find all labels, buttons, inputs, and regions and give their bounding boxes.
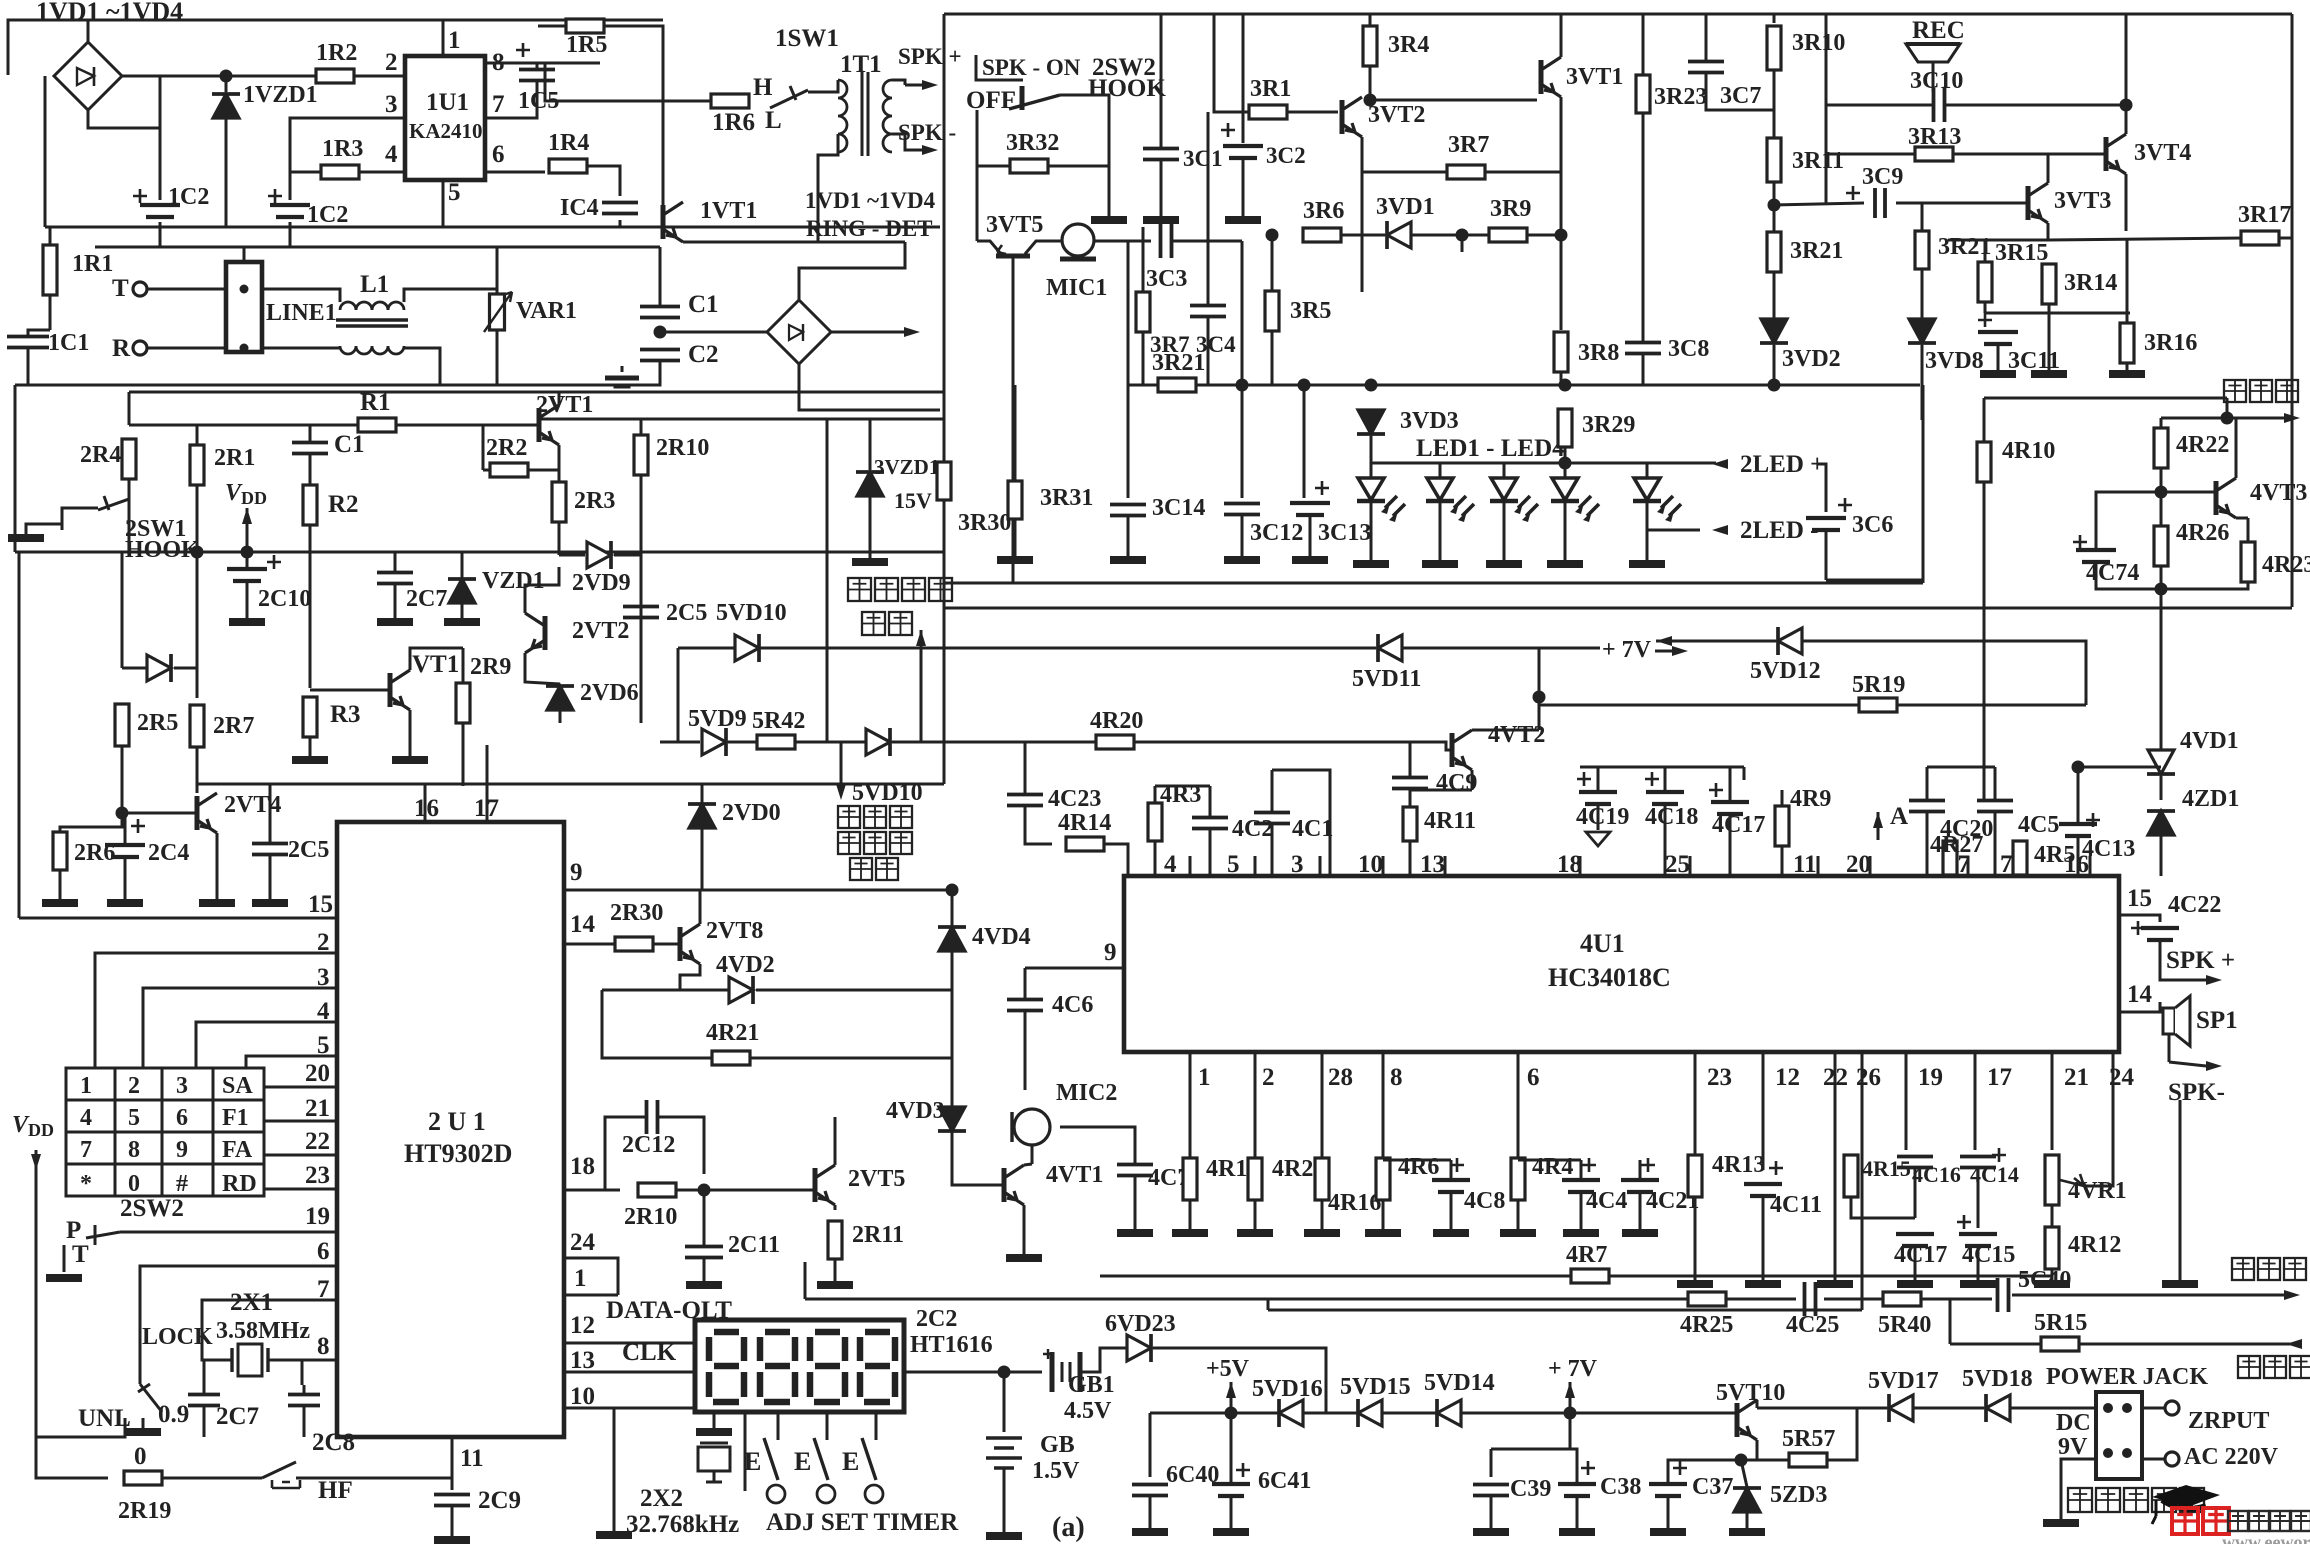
wire 2VD0 top [701, 784, 704, 803]
wire spk+ lead [2160, 958, 2206, 980]
text 控制 [862, 612, 885, 635]
zener 2VD6 [547, 686, 573, 710]
resistor 2R10 (18) [638, 1183, 676, 1197]
plus 4C11 [1769, 1161, 1783, 1175]
resistor 3R14 [2042, 264, 2056, 304]
svg-text:10: 10 [570, 1383, 595, 1410]
svg-text:15: 15 [308, 891, 333, 918]
ground under SP1 col [2162, 1280, 2198, 1288]
diode 5VD15 [1358, 1400, 1382, 1426]
resistor 3R1 [1249, 105, 1287, 119]
wire 3R32 right [1048, 165, 1109, 168]
capacitor 4C7 [1117, 1165, 1153, 1176]
svg-text:6C40: 6C40 [1166, 1462, 1219, 1488]
svg-text:4VD3: 4VD3 [886, 1098, 945, 1124]
svg-text:4C23: 4C23 [1048, 786, 1101, 812]
svg-text:2R11: 2R11 [852, 1222, 904, 1248]
wire jack gnd [2061, 1459, 2096, 1519]
resistor 4R4 [1511, 1158, 1525, 1200]
wire 4VT3 collector [2227, 418, 2236, 478]
svg-text:5VD14: 5VD14 [1424, 1370, 1495, 1396]
wire pin26 bend [1268, 1309, 1862, 1312]
svg-text:24: 24 [570, 1229, 596, 1256]
svg-text:HT1616: HT1616 [910, 1332, 993, 1358]
wire +7V rail a [678, 647, 1376, 650]
svg-text:1: 1 [574, 1265, 587, 1292]
capacitor 2C5 (2) [252, 844, 288, 855]
wire 1R4 right [587, 166, 620, 196]
wire 4VT3 base [2161, 491, 2216, 494]
svg-text:1C1: 1C1 [48, 330, 89, 356]
wire node to 1R2 [226, 75, 317, 78]
svg-text:*: * [80, 1171, 92, 1197]
wire left inner border [18, 552, 21, 918]
resistor 3R17 [2241, 231, 2279, 245]
7-seg digit 2 [760, 1332, 795, 1402]
svg-text:2R2: 2R2 [486, 435, 527, 461]
wire +7V rail b [1402, 647, 1600, 650]
svg-text:1R3: 1R3 [322, 136, 363, 162]
resistor 3R23 [1636, 75, 1650, 113]
wire 4U1 top stub x1580 [1579, 856, 1582, 876]
capacitor 2C5 (1) [623, 607, 659, 618]
wire 2C5b dn [269, 855, 272, 899]
wire audio rail 4 [1921, 1298, 1992, 1301]
arrow to hook switch [904, 327, 920, 337]
transistor VT1 [388, 673, 393, 707]
svg-text:8: 8 [1390, 1064, 1403, 1091]
wire 3VT3 collector [2047, 154, 2050, 183]
wire 2VT1 collector rail [539, 418, 944, 421]
wire 3C13 top [1303, 385, 1306, 498]
svg-text:1T1: 1T1 [840, 51, 882, 78]
wire rail 4R7 [1100, 1275, 1571, 1278]
transistor 3VT3 [2026, 186, 2031, 220]
resistor 2R3 [552, 482, 566, 522]
plus 3C6 [1838, 498, 1852, 512]
bridge rectifier 1VD1~1VD4 [54, 42, 122, 110]
transistor 2VT2 [543, 616, 548, 650]
svg-text:5VD12: 5VD12 [1750, 658, 1821, 684]
LINE1 dot T [240, 285, 249, 294]
svg-text:1.5V: 1.5V [1032, 1458, 1080, 1484]
resistor 2R2 [490, 463, 528, 477]
svg-text:3R21: 3R21 [1152, 350, 1205, 376]
svg-text:3R29: 3R29 [1582, 412, 1635, 438]
wire 4R20 to 4VT2 [1134, 742, 1452, 750]
capacitor 4C25 [1805, 1282, 1816, 1316]
wire 2VT5 emitter [834, 1205, 837, 1210]
wire 2C9 dn [451, 1506, 454, 1536]
wire pin13 row [564, 1371, 695, 1374]
svg-text:2C12: 2C12 [622, 1132, 675, 1158]
wire pin17 col [1974, 1052, 1977, 1150]
wire 2R5 down [121, 746, 124, 813]
wire 2R9 top [462, 648, 465, 683]
wire bridge left drop [8, 20, 88, 75]
capacitor 4C1 [1254, 813, 1290, 824]
wire rail 4R7 right [1609, 1275, 2052, 1278]
svg-text:3VZD1: 3VZD1 [874, 455, 939, 479]
wire 2R19 row [36, 1437, 108, 1478]
wire 2VT5 collector [834, 1117, 837, 1165]
svg-text:HC34018C: HC34018C [1548, 963, 1671, 992]
transistor 3VT2 [1340, 100, 1345, 134]
resistor R3 [303, 697, 317, 737]
svg-text:4R1: 4R1 [1206, 1156, 1247, 1182]
wire 5R57 right [1827, 1408, 1857, 1460]
MIC1 base bar [1060, 257, 1096, 262]
wire 3R10-3R11 [1773, 70, 1776, 140]
wire pin23 col [1694, 1052, 1697, 1156]
wire 3C6 down [1825, 531, 1828, 580]
svg-text:3R7: 3R7 [1448, 132, 1489, 158]
arrow record down [836, 784, 846, 800]
wire 4C74 bottom [2096, 562, 2161, 589]
crystal 2X1 [232, 1348, 268, 1372]
wire 4C13 link [2078, 766, 2161, 769]
wire 4R12 dn [2051, 1269, 2054, 1280]
wire 4C17 stem [1729, 767, 1732, 800]
ground under 2C9 [434, 1536, 470, 1544]
wire cap bracket top [1580, 766, 1744, 769]
svg-text:VAR1: VAR1 [516, 298, 577, 324]
wire 1C2b bot [289, 222, 292, 247]
wire 4R10 to 4C5 [1983, 767, 1986, 800]
capacitor 4C18 [1646, 792, 1684, 804]
wire msg arrow lead [2227, 398, 2284, 418]
wire 4U1 top stub x1968 [1967, 856, 1970, 876]
svg-text:0.9: 0.9 [158, 1401, 189, 1428]
wire 3R14 gnd [2048, 313, 2051, 370]
wire 4R9 dn [1781, 846, 1784, 876]
junction LED rail [1559, 457, 1572, 470]
svg-text:4: 4 [385, 141, 398, 168]
svg-text:4C74: 4C74 [2086, 560, 2139, 586]
wire 5VD10a col [677, 648, 680, 742]
wire 3VT1 emitter col [1560, 97, 1563, 330]
wire left border col [14, 392, 17, 552]
capacitor 4C74 [2076, 550, 2116, 562]
microphone MIC2 [1014, 1109, 1050, 1145]
wire 2-block top [129, 391, 944, 394]
ground under 4C15 [1960, 1280, 1996, 1288]
resistor 3R10 [1767, 26, 1781, 70]
wire IC4 bot [619, 220, 622, 227]
capacitor 2C11 [685, 1247, 723, 1258]
wire 4R13 dn [1694, 1197, 1697, 1280]
wire 5VD18 right [2010, 1407, 2096, 1410]
junction +7V bottom [1564, 1407, 1577, 1420]
wire 5R15 right [2079, 1343, 2292, 1346]
svg-text:3R31: 3R31 [1040, 485, 1093, 511]
capacitor 4C17 (upper) [1711, 802, 1749, 814]
plus 4C18 [1645, 772, 1659, 786]
wire LINE1 to L1 bot [262, 347, 340, 350]
wire 4VD1 dn [2160, 776, 2163, 800]
svg-text:5R57: 5R57 [1782, 1426, 1835, 1452]
plus C37 [1673, 1461, 1687, 1475]
svg-text:4: 4 [80, 1105, 92, 1131]
wire 2R1 top [196, 425, 199, 445]
wire 3VT3 emitter [2047, 223, 2050, 240]
svg-text:2C8: 2C8 [312, 1429, 355, 1456]
transistor 2VT5 [813, 1168, 818, 1202]
wire 6C41 dn [1230, 1496, 1233, 1528]
svg-text:1VD1 ~1VD4: 1VD1 ~1VD4 [36, 0, 183, 26]
wire x944-down [943, 608, 946, 784]
plus 4C17b [1957, 1215, 1971, 1229]
wire LINE1 to L1 top [262, 289, 340, 302]
ground under C38 [1559, 1528, 1595, 1536]
svg-text:12: 12 [570, 1312, 595, 1339]
wire disp pin b [744, 1412, 747, 1491]
wire 2-block left stub [128, 392, 131, 425]
arrow SPK+ right [2206, 975, 2222, 985]
wire pin20 to rowSA [264, 1086, 337, 1089]
svg-text:VZD1: VZD1 [482, 568, 545, 594]
svg-text:6: 6 [317, 1238, 330, 1265]
capacitor 4C19 [1579, 792, 1617, 804]
wire 3VT1 collector [1560, 14, 1563, 57]
transistor 4VT3 [2214, 481, 2219, 515]
connector POWER JACK [2096, 1392, 2142, 1479]
resistor 3R30 [937, 462, 951, 500]
svg-text:3C14: 3C14 [1152, 495, 1205, 521]
plus 3C11 [1978, 313, 1992, 327]
wire R to LINE1 [147, 347, 226, 350]
wire pin24 col [2112, 1052, 2115, 1076]
battery GB1 [1052, 1352, 1080, 1392]
wire left col down [14, 385, 17, 392]
wire 2R10 right [676, 1189, 815, 1192]
svg-text:DC: DC [2056, 1410, 2091, 1436]
svg-text:C1: C1 [334, 431, 365, 458]
wire 4C2 top [1209, 786, 1212, 817]
svg-text:3VD1: 3VD1 [1376, 194, 1435, 220]
svg-text:4C17: 4C17 [1712, 812, 1765, 838]
wire 4C8 dn [1450, 1192, 1453, 1229]
wire 3C6 bot row [1826, 579, 1923, 582]
ground under C39 [1473, 1528, 1509, 1536]
wire pin4 to col3 [196, 1022, 337, 1068]
wire 4U1 top stub x1690 [1689, 856, 1692, 876]
svg-text:OFF: OFF [966, 87, 1016, 114]
wire 5R19 right [1897, 704, 2086, 707]
wire 3VT4 emitter [2125, 174, 2128, 231]
svg-text:3R15: 3R15 [1995, 240, 2048, 266]
ground 2X2 col [596, 1531, 632, 1539]
wire +5V rail [1150, 1412, 1737, 1415]
wire pin26 col [1861, 1052, 1864, 1310]
wire 3VZD1 down [869, 496, 872, 558]
svg-text:3R4: 3R4 [1388, 32, 1429, 58]
wire R2 down [309, 525, 312, 688]
wire 4VT2 emitter join [1410, 789, 1472, 792]
jack pin 3 [2103, 1448, 2113, 1458]
capacitor C39 [1473, 1485, 1509, 1496]
resistor 1R3 [321, 165, 359, 179]
jack pin 2 [2122, 1403, 2132, 1413]
diode 6VD23 [1127, 1335, 1151, 1361]
wire 5R15 row [1950, 1343, 2041, 1346]
wire 4C17b dn [1914, 1246, 1917, 1280]
wire 3R13 row [1826, 153, 1915, 156]
ground under 3R14 [2031, 370, 2067, 378]
svg-text:5R42: 5R42 [752, 708, 805, 734]
svg-text:4R13: 4R13 [1712, 1152, 1765, 1178]
junction 3R9 left [1456, 229, 1469, 242]
capacitor 3C1 [1143, 149, 1179, 160]
svg-text:1R2: 1R2 [316, 40, 357, 66]
wire 2-block inner bottom [197, 783, 944, 786]
svg-text:28: 28 [1328, 1064, 1353, 1091]
wire 4VT2 collector link [1472, 729, 1539, 732]
wire msg-in stub up [1922, 385, 1925, 398]
capacitor C1 (2) [292, 443, 328, 454]
speaker SP1 [2163, 1008, 2175, 1034]
wire 2R6 dn [59, 870, 62, 899]
wire LED5 top [1646, 463, 1649, 478]
wire 4C11 dn [1762, 1196, 1765, 1280]
wire 4C18 dn [1664, 804, 1667, 876]
wire 2R5 col top [121, 552, 124, 668]
wire 4R23 top [2247, 518, 2250, 542]
svg-text:R: R [112, 335, 131, 362]
svg-text:5VT10: 5VT10 [1716, 1380, 1785, 1406]
wire 6VD23 right [1153, 1348, 1326, 1413]
wire 3R8 bottom [1560, 372, 1563, 385]
wire 3C12 top [1241, 241, 1244, 498]
wire 4VR1 wiper [2084, 1076, 2113, 1186]
svg-text:2: 2 [385, 49, 398, 76]
wire pin11 stub [451, 1437, 454, 1490]
ground under 5ZD3 [1729, 1528, 1765, 1536]
svg-text:1: 1 [1198, 1064, 1211, 1091]
wire VDD stem [246, 508, 249, 552]
wire 3R6 to 3VD1 [1341, 234, 1385, 237]
diode 5VD17 [1889, 1395, 1913, 1421]
resistor 4R6 [1376, 1158, 1390, 1200]
wire 2R1 down [196, 485, 199, 552]
switch HF [262, 1462, 310, 1478]
resistor 4R14 [1066, 837, 1104, 851]
svg-text:3: 3 [385, 91, 398, 118]
wire 3VT5 col [976, 110, 979, 241]
resistor 3R29 [1558, 409, 1572, 447]
svg-text:4R14: 4R14 [1058, 810, 1111, 836]
wire y203 row [1774, 203, 1864, 205]
wire 4R10 down [1983, 482, 1986, 800]
ground LOCK 0 [125, 1428, 161, 1436]
wire 3R15 bottom [1984, 302, 1987, 313]
junction rail 1242 [1236, 379, 1249, 392]
plus C38 [1581, 1461, 1595, 1475]
wire 3VZD1 stem [869, 419, 872, 470]
wire pin22 col [1834, 1052, 1837, 1280]
svg-text:1: 1 [80, 1073, 92, 1099]
svg-text:4R11: 4R11 [1424, 808, 1476, 834]
bridge rectifier (line) [767, 300, 831, 364]
wire 3R21L down [1773, 272, 1776, 318]
wire GB dn [1003, 1468, 1006, 1532]
text 来话留 [838, 806, 860, 828]
wire GB col [1003, 1372, 1006, 1432]
resistor 4R15 [1844, 1155, 1858, 1197]
junction 3VT1 emitter col [1555, 229, 1568, 242]
arrow +7V left (5VD12) [1656, 636, 1672, 646]
ground under 4R4 [1500, 1229, 1536, 1237]
wire 4C2 dn [1209, 829, 1212, 876]
arrow +7V right [1672, 646, 1688, 656]
ground below C2 rail [605, 378, 639, 386]
capacitor 4C23 [1007, 795, 1043, 806]
wire 3C1 stem [1160, 14, 1163, 148]
plus 4C4 [1582, 1158, 1596, 1172]
ground under 2C4 [107, 899, 143, 907]
wire pin2 to col1 [95, 953, 337, 1068]
wire VT1 emitter [409, 710, 412, 756]
terminal AC [2165, 1452, 2179, 1466]
svg-text:26: 26 [1856, 1064, 1881, 1091]
wire 4C5 top [1994, 767, 1997, 800]
wire 4C9 top [1409, 742, 1412, 777]
wire pin17 stub [486, 784, 489, 822]
wire switch to 1T1 [808, 80, 838, 92]
junction 3R11 bottom [1768, 199, 1781, 212]
inductor L1 [340, 302, 404, 310]
resistor 4R9 [1775, 806, 1789, 846]
svg-text:5VD10: 5VD10 [716, 600, 787, 626]
svg-text:2X2: 2X2 [640, 1485, 683, 1512]
wire spk- lead [2169, 1062, 2206, 1066]
IC 4U1 HC34018C [1124, 876, 2119, 1052]
wire pin18 row [564, 1189, 620, 1192]
wire 4C5 dn [1994, 812, 1997, 876]
wire 3R21 left col [1127, 240, 1130, 498]
svg-text:10: 10 [1358, 851, 1383, 878]
svg-text:4C16: 4C16 [1912, 1162, 1961, 1187]
wire 5VD12 lead [1656, 640, 1776, 643]
wire 5VD12 right [1802, 641, 2086, 705]
wire 4VD2 right [756, 989, 952, 992]
svg-text:4C13: 4C13 [2082, 836, 2135, 862]
wire 4R21 left [602, 990, 712, 1058]
resistor 4R3 [1148, 803, 1162, 841]
ground under 4VT1 [1006, 1254, 1042, 1262]
wire pin19 to P [120, 1231, 337, 1234]
wire R3 dn [309, 710, 312, 756]
resistor 2R1 [190, 445, 204, 485]
wire 2VT4 collector [196, 784, 199, 793]
capacitor 4C6 [1007, 1000, 1043, 1011]
wire pin1 stub [442, 20, 445, 56]
wire 4R11 dn [1409, 841, 1412, 876]
resistor 3R9 [1489, 228, 1527, 242]
wire L1 right bot [404, 348, 440, 385]
resistor 3R32 [1010, 159, 1048, 173]
LINE1 dot R [240, 344, 249, 353]
wire 3C14 down [1127, 516, 1130, 556]
svg-text:E: E [744, 1447, 761, 1476]
plus 1C5 [516, 43, 530, 57]
wire record arrow line [840, 742, 843, 784]
wire 2R2 left [483, 469, 490, 472]
svg-text:5VD11: 5VD11 [1352, 666, 1421, 692]
svg-text:12: 12 [1775, 1064, 1800, 1091]
resistor 3R31 [1008, 481, 1022, 519]
svg-text:4R23: 4R23 [2262, 552, 2310, 578]
